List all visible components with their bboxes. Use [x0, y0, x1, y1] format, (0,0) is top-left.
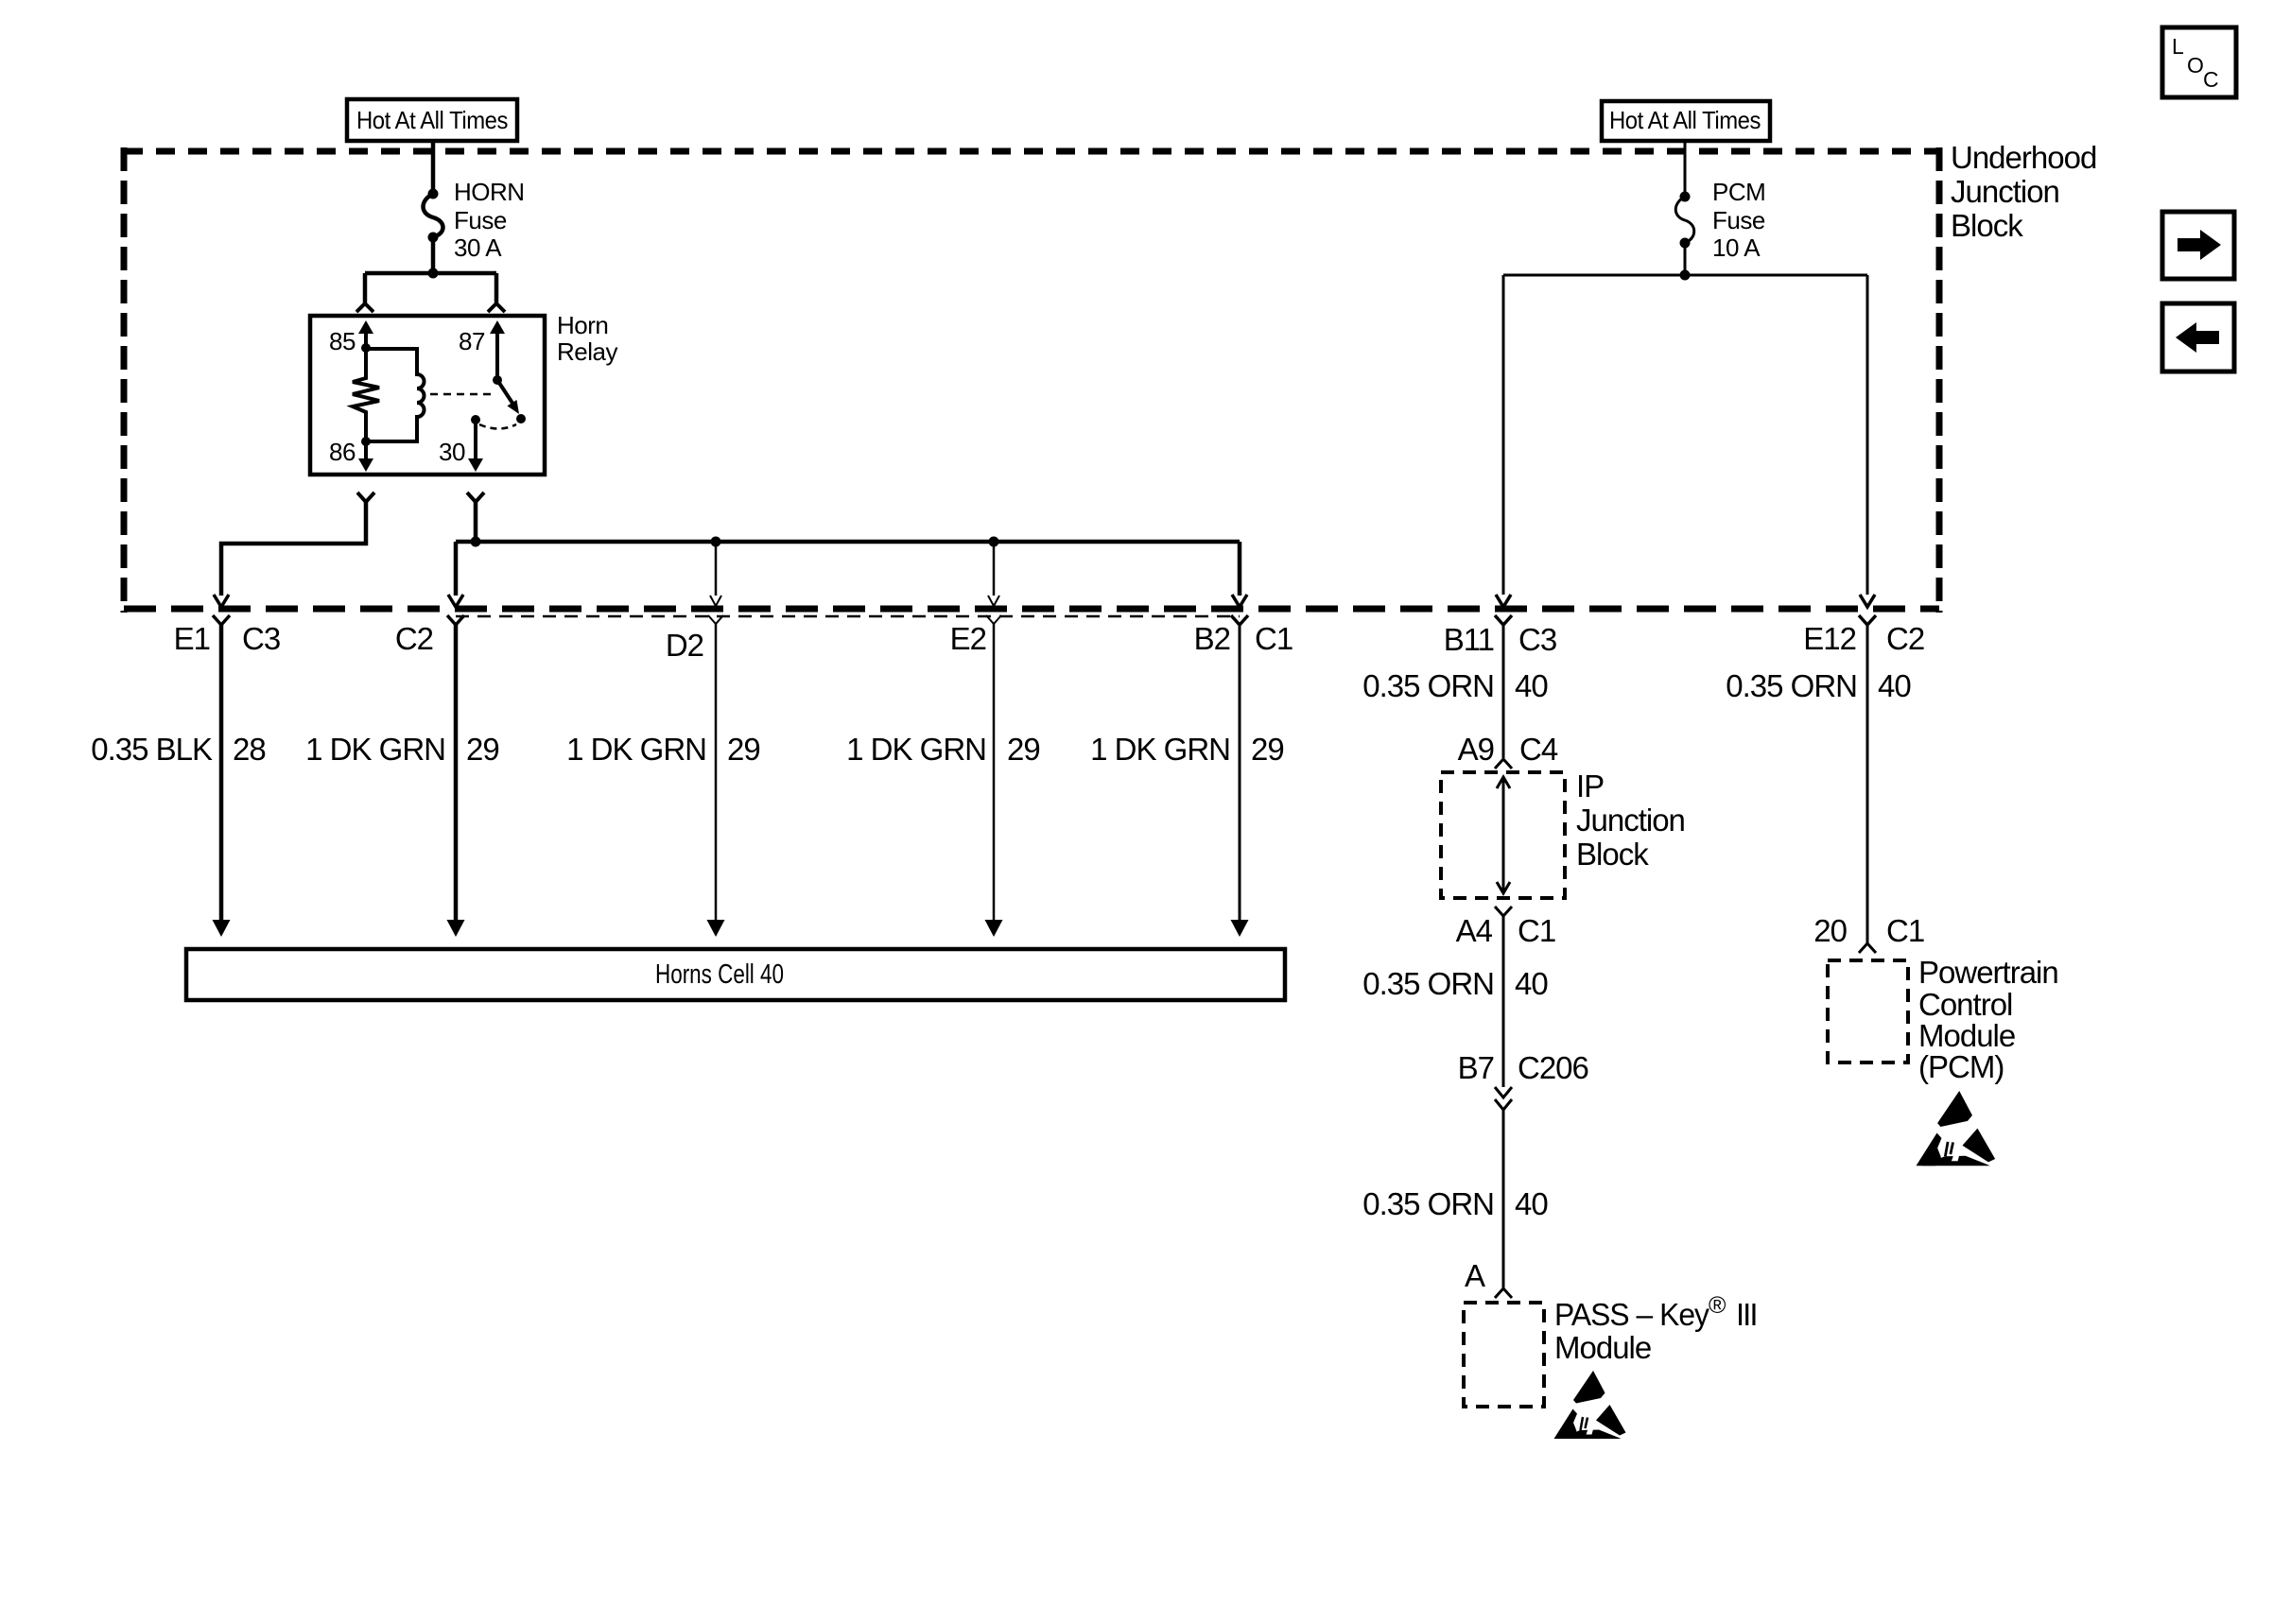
svg-text:B2: B2 [1194, 621, 1230, 656]
svg-text:30 A: 30 A [454, 233, 502, 262]
svg-text:20: 20 [1813, 913, 1847, 948]
svg-text:Block: Block [1951, 208, 2023, 243]
svg-text:C2: C2 [1886, 621, 1924, 656]
svg-text:30: 30 [439, 438, 465, 466]
svg-text:Fuse: Fuse [1712, 206, 1765, 234]
svg-text:Control: Control [1918, 987, 2012, 1022]
svg-text:C2: C2 [395, 621, 433, 656]
svg-text:1 DK GRN: 1 DK GRN [1090, 732, 1230, 767]
svg-text:40: 40 [1878, 668, 1911, 703]
svg-text:PASS – Key: PASS – Key [1554, 1297, 1709, 1332]
svg-text:29: 29 [1251, 732, 1284, 767]
svg-text:Hot At All Times: Hot At All Times [1609, 106, 1761, 134]
svg-text:C1: C1 [1255, 621, 1293, 656]
svg-text:Junction: Junction [1951, 174, 2059, 209]
svg-text:®: ® [1709, 1292, 1726, 1319]
svg-text:A: A [1465, 1258, 1485, 1293]
svg-text:E1: E1 [174, 621, 210, 656]
svg-text:Block: Block [1576, 837, 1649, 872]
svg-text:1 DK GRN: 1 DK GRN [566, 732, 706, 767]
svg-text:87: 87 [459, 327, 485, 355]
svg-text:O: O [2187, 53, 2204, 78]
svg-text:86: 86 [329, 438, 356, 466]
svg-text:C1: C1 [1886, 913, 1924, 948]
svg-text:Hot At All Times: Hot At All Times [356, 106, 508, 134]
svg-text:C206: C206 [1518, 1050, 1588, 1085]
svg-text:1 DK GRN: 1 DK GRN [305, 732, 445, 767]
svg-text:40: 40 [1515, 668, 1548, 703]
svg-text:A4: A4 [1456, 913, 1493, 948]
svg-text:Module: Module [1918, 1018, 2015, 1053]
svg-text:Horns Cell 40: Horns Cell 40 [655, 959, 784, 990]
svg-text:29: 29 [466, 732, 499, 767]
svg-text:B7: B7 [1458, 1050, 1494, 1085]
svg-text:L: L [2172, 34, 2184, 59]
svg-text:Fuse: Fuse [454, 206, 507, 234]
svg-text:Relay: Relay [557, 337, 617, 366]
svg-text:C: C [2203, 67, 2219, 92]
svg-text:D2: D2 [666, 628, 703, 663]
svg-text:29: 29 [727, 732, 760, 767]
svg-text:0.35 ORN: 0.35 ORN [1362, 1186, 1494, 1221]
svg-text:85: 85 [329, 327, 356, 355]
svg-text:1 DK GRN: 1 DK GRN [846, 732, 986, 767]
svg-text:C3: C3 [242, 621, 280, 656]
svg-text:C1: C1 [1518, 913, 1555, 948]
svg-text:(PCM): (PCM) [1918, 1049, 2004, 1084]
svg-text:40: 40 [1515, 1186, 1548, 1221]
svg-text:E2: E2 [950, 621, 986, 656]
svg-text:Underhood: Underhood [1951, 140, 2096, 175]
svg-text:28: 28 [233, 732, 266, 767]
svg-text:IP: IP [1576, 769, 1604, 803]
svg-text:E12: E12 [1803, 621, 1856, 656]
svg-text:0.35 ORN: 0.35 ORN [1362, 966, 1494, 1001]
svg-text:PCM: PCM [1712, 178, 1765, 206]
svg-text:C4: C4 [1519, 732, 1558, 767]
svg-text:B11: B11 [1444, 622, 1494, 657]
svg-text:29: 29 [1007, 732, 1040, 767]
svg-text:III: III [1736, 1297, 1757, 1332]
svg-text:10 A: 10 A [1712, 233, 1761, 262]
svg-text:Module: Module [1554, 1330, 1651, 1365]
svg-text:40: 40 [1515, 966, 1548, 1001]
svg-text:Junction: Junction [1576, 803, 1685, 838]
svg-text:HORN: HORN [454, 178, 525, 206]
svg-text:A9: A9 [1458, 732, 1494, 767]
svg-text:Powertrain: Powertrain [1918, 955, 2058, 990]
svg-text:C3: C3 [1518, 622, 1556, 657]
svg-text:0.35 ORN: 0.35 ORN [1726, 668, 1857, 703]
svg-text:0.35 BLK: 0.35 BLK [91, 732, 213, 767]
svg-text:Horn: Horn [557, 311, 608, 339]
svg-text:0.35 ORN: 0.35 ORN [1362, 668, 1494, 703]
